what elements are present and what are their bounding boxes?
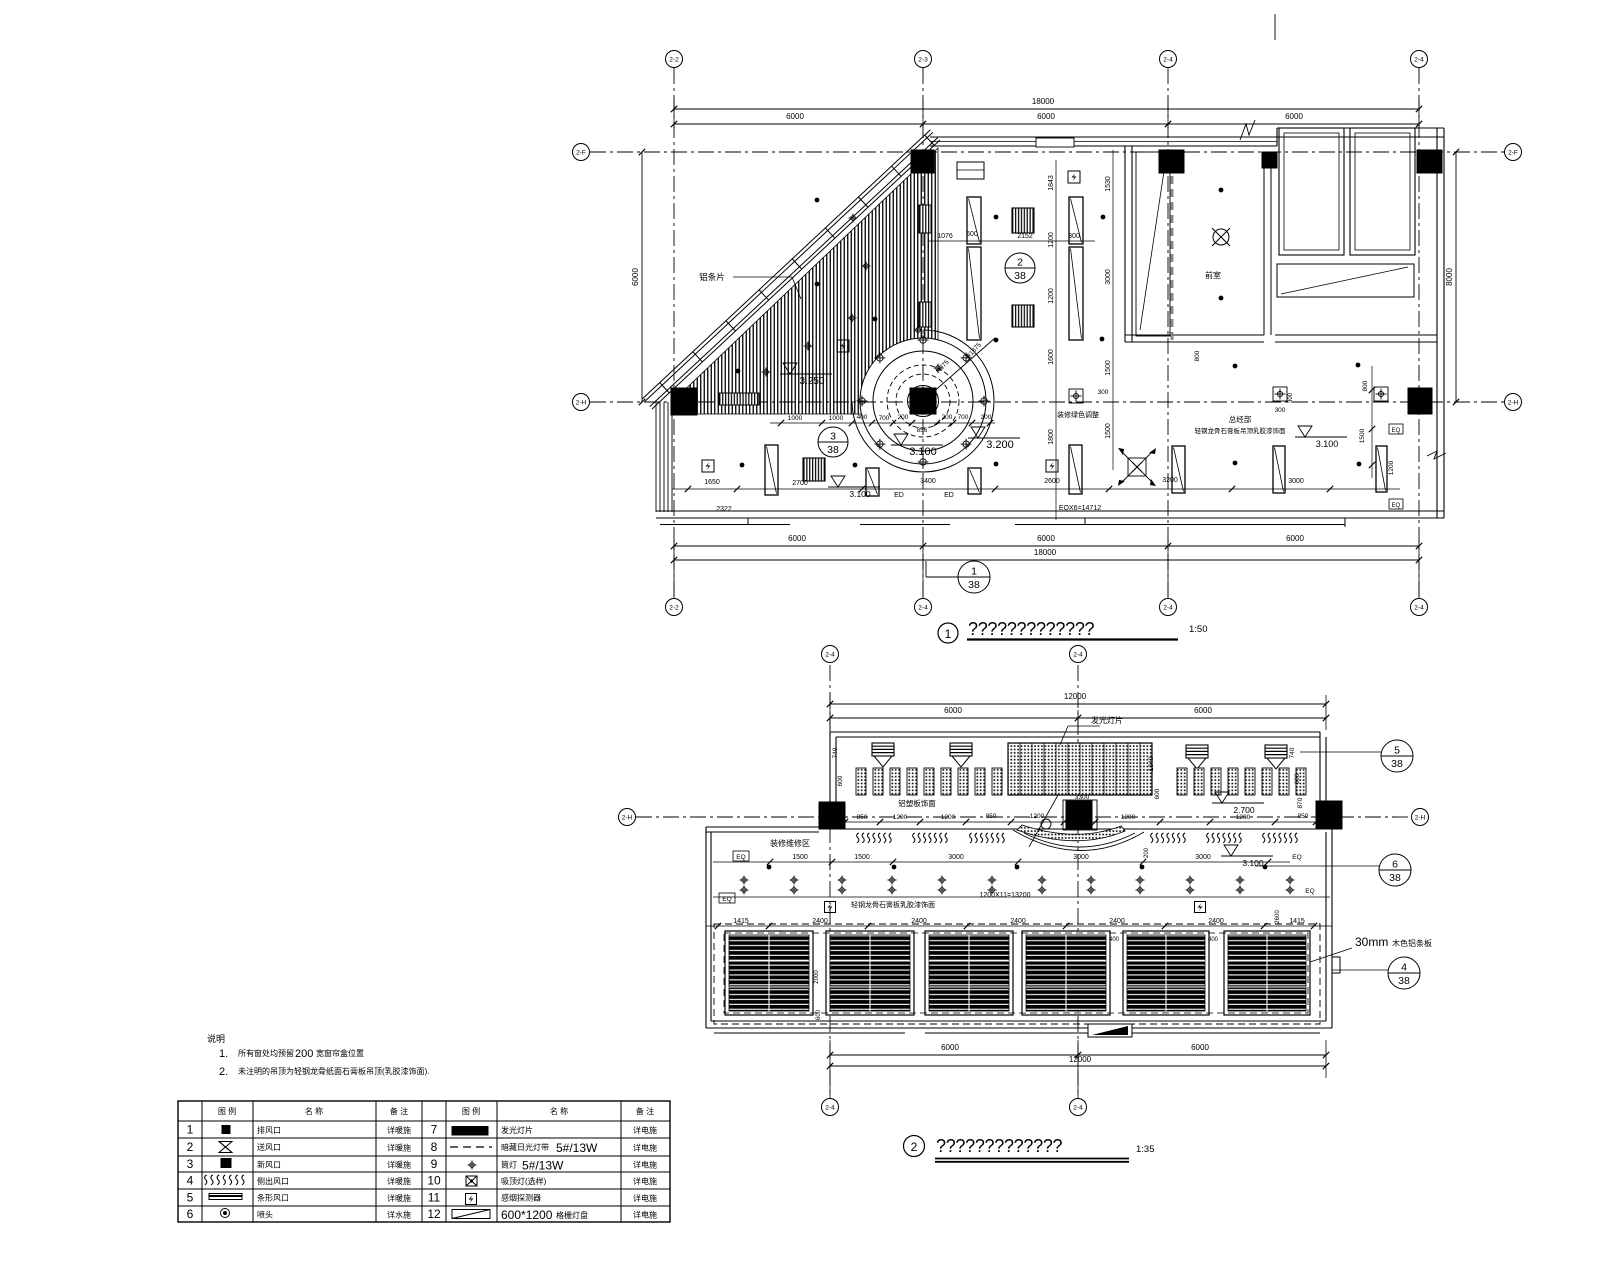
svg-text:1530: 1530 (1105, 176, 1112, 192)
svg-text:2000: 2000 (814, 970, 820, 984)
svg-text:740: 740 (832, 747, 839, 758)
svg-text:说明: 说明 (207, 1033, 225, 1044)
closet cabinet A (1279, 128, 1344, 255)
axis bubble lower top right (1070, 646, 1087, 663)
svg-text:1200: 1200 (893, 814, 908, 821)
facade bottom wall (656, 510, 1444, 512)
return air grille hatched top (1012, 208, 1034, 233)
svg-text:详暖施: 详暖施 (387, 1193, 411, 1203)
legend sym row3 fresh air (221, 1159, 231, 1168)
svg-text:1200: 1200 (941, 814, 956, 821)
svg-text:备 注: 备 注 (390, 1106, 408, 1116)
small wall notch right (1332, 957, 1340, 973)
bottom row slot diffusers (765, 445, 778, 495)
axis bubble lower bottom left (822, 1099, 839, 1116)
svg-text:3.100: 3.100 (909, 446, 937, 458)
svg-text:1200: 1200 (1048, 288, 1055, 304)
detail bubble 5/38 (1381, 740, 1413, 772)
svg-text:名 称: 名 称 (550, 1106, 568, 1116)
svg-text:10: 10 (427, 1174, 441, 1188)
svg-text:30mm: 30mm (1355, 935, 1388, 949)
svg-text:2-H: 2-H (1415, 814, 1426, 821)
detail bubble 3/38 (818, 427, 848, 457)
svg-text:38: 38 (1389, 872, 1401, 884)
svg-text:?????????????: ????????????? (968, 619, 1095, 639)
svg-text:喷头: 喷头 (257, 1210, 273, 1220)
svg-text:宽窗帘盒位置: 宽窗帘盒位置 (316, 1048, 364, 1058)
upper ceiling plan : hatched triangular zone (672, 148, 938, 414)
svg-text:2-F: 2-F (1508, 149, 1518, 156)
upper block walls (830, 731, 1320, 733)
svg-text:EQ: EQ (1305, 888, 1314, 895)
svg-text:2-4: 2-4 (1073, 651, 1083, 658)
svg-text:详暖施: 详暖施 (387, 1176, 411, 1186)
svg-text:1000: 1000 (829, 415, 844, 422)
axis bubble 2-2 bottom (666, 599, 683, 616)
svg-text:1415: 1415 (1289, 918, 1305, 925)
bottom window sill lines (714, 1032, 905, 1034)
svg-text:300: 300 (1288, 392, 1294, 403)
svg-text:200: 200 (295, 1048, 313, 1060)
legend table frame (178, 1101, 670, 1222)
svg-text:2700: 2700 (792, 480, 808, 487)
svg-text:2400: 2400 (1208, 918, 1224, 925)
column small at partition (1262, 152, 1277, 168)
detail bubble 1/38 (925, 561, 927, 577)
axis bubble 2-H right (1505, 394, 1522, 411)
left vertical dimension 6000 (641, 152, 643, 402)
right vertical dimension 8000 (1455, 152, 1457, 402)
svg-text:详电施: 详电施 (633, 1125, 657, 1135)
svg-text:1500: 1500 (1359, 428, 1366, 443)
EQ labels (733, 851, 749, 861)
tall supply grille pair left (967, 197, 981, 244)
closet cabinet B (1350, 128, 1415, 255)
svg-text:12000: 12000 (1064, 692, 1087, 701)
svg-text:轻钢龙骨石膏板吊顶乳胶漆饰面: 轻钢龙骨石膏板吊顶乳胶漆饰面 (1195, 426, 1287, 435)
w-vent symbols upper block (872, 743, 894, 756)
svg-text:18000: 18000 (1034, 548, 1057, 557)
legend sym row9 downlight (468, 1161, 477, 1170)
svg-text:700: 700 (879, 415, 890, 422)
sprinklers on ring (979, 396, 990, 407)
ceiling dots lower hall (767, 865, 772, 870)
svg-text:6000: 6000 (1286, 534, 1304, 543)
svg-text:铝塑板饰面: 铝塑板饰面 (898, 798, 936, 808)
svg-text:200: 200 (942, 414, 953, 421)
svg-text:1415: 1415 (733, 918, 749, 925)
svg-text:2-2: 2-2 (669, 604, 679, 611)
svg-text:740: 740 (1289, 747, 1296, 758)
svg-text:5: 5 (1394, 745, 1400, 757)
svg-text:详暖施: 详暖施 (387, 1143, 411, 1153)
four-arrow ceiling symbol (1120, 450, 1154, 484)
svg-text:格栅灯盘: 格栅灯盘 (556, 1210, 588, 1220)
svg-text:1:35: 1:35 (1136, 1144, 1155, 1155)
lower plan top dimension 6000s (830, 717, 1326, 719)
axis bubble lower top left (822, 646, 839, 663)
svg-text:2: 2 (911, 1140, 918, 1154)
svg-text:38: 38 (827, 444, 839, 456)
svg-text:侧出风口: 侧出风口 (257, 1176, 289, 1186)
svg-text:2-3: 2-3 (918, 56, 928, 63)
svg-text:名 称: 名 称 (305, 1106, 323, 1116)
axis bubble 2-5 top (1411, 51, 1428, 68)
grille luminaire panel 1 (725, 931, 813, 1015)
svg-text:备 注: 备 注 (636, 1106, 654, 1116)
svg-text:1200: 1200 (1388, 460, 1395, 475)
lower plan top dimension 12000 (830, 703, 1326, 705)
svg-text:1600: 1600 (1048, 349, 1055, 365)
svg-text:2-F: 2-F (576, 149, 586, 156)
level mark 3.100 centre (894, 434, 908, 445)
grid axis horizontal 2-H (590, 401, 1505, 403)
svg-text:1200: 1200 (1030, 813, 1045, 820)
svg-text:600: 600 (837, 775, 844, 786)
lower plan bottom dimension 12000 (830, 1065, 1326, 1067)
svg-text:详电施: 详电施 (633, 1160, 657, 1170)
svg-text:图 例: 图 例 (462, 1106, 480, 1116)
svg-text:800: 800 (1362, 380, 1369, 391)
outer partial arc of circular feature (852, 330, 994, 472)
svg-text:详水施: 详水施 (387, 1210, 411, 1220)
svg-text:6000: 6000 (941, 1043, 959, 1052)
smoke detector symbols (702, 460, 714, 472)
svg-text:暗藏日光灯带: 暗藏日光灯带 (501, 1142, 549, 1152)
svg-text:5: 5 (187, 1191, 194, 1205)
column lower plan left (819, 802, 845, 829)
svg-text:6000: 6000 (1191, 1043, 1209, 1052)
svg-text:3400: 3400 (920, 478, 936, 485)
svg-text:未注明的吊顶为轻钢龙骨纸面石膏板吊顶(乳胶漆饰面).: 未注明的吊顶为轻钢龙骨纸面石膏板吊顶(乳胶漆饰面). (238, 1066, 430, 1076)
vestibule dots (1219, 188, 1224, 193)
axis bubble 2-4 top (1160, 51, 1177, 68)
right wall of plan (1436, 128, 1438, 518)
svg-text:2.700: 2.700 (1233, 805, 1255, 815)
svg-text:3: 3 (830, 431, 836, 443)
squiggle diffuser groups (857, 833, 892, 843)
level mark 3.200 (971, 427, 985, 438)
svg-text:18000: 18000 (1032, 97, 1055, 106)
svg-text:木色铝条板: 木色铝条板 (1392, 938, 1432, 948)
legend sym row6 sprinkler head (221, 1209, 230, 1218)
svg-text:3.250: 3.250 (799, 376, 824, 387)
bottom dimension line 6000 segments (674, 545, 1419, 547)
svg-text:300: 300 (1275, 407, 1286, 414)
svg-text:2-2: 2-2 (669, 56, 679, 63)
svg-text:2400: 2400 (911, 918, 927, 925)
grid axis vertical 2-2 (673, 68, 675, 597)
svg-text:5#/13W: 5#/13W (556, 1141, 598, 1155)
axis bubble 2-5 bottom (1411, 599, 1428, 616)
column right wall 2-H (1408, 388, 1432, 414)
column lower plan right (1316, 801, 1342, 829)
svg-text:6000: 6000 (631, 268, 640, 286)
svg-text:铝条片: 铝条片 (699, 272, 725, 282)
svg-text:1200X11=13200: 1200X11=13200 (979, 892, 1030, 899)
svg-text:4: 4 (1401, 962, 1407, 974)
svg-text:6000: 6000 (944, 706, 962, 715)
svg-text:6000: 6000 (1037, 534, 1055, 543)
section wedge marker (1088, 1024, 1132, 1037)
svg-text:送风口: 送风口 (257, 1142, 281, 1152)
legend sym row5 linear grille (209, 1194, 242, 1200)
axis bubble lower left (619, 809, 636, 826)
svg-text:1843: 1843 (1048, 175, 1055, 191)
top dimension line 18000 (674, 108, 1419, 110)
curved reception feature (1063, 800, 1097, 830)
level 2.700 (1215, 792, 1229, 803)
detail bubble 4/38 (1388, 957, 1420, 989)
legend sym row1 exhaust (222, 1126, 230, 1134)
vestibule door leaf with swing (1136, 152, 1170, 336)
svg-text:800: 800 (1194, 350, 1201, 361)
level mark 3.100 low (831, 476, 845, 487)
svg-text:图 例: 图 例 (218, 1106, 236, 1116)
svg-text:条形风口: 条形风口 (257, 1193, 289, 1203)
svg-text:1500: 1500 (1105, 423, 1112, 439)
leader to luminous film (1029, 795, 1058, 847)
level mark 3.100 right (1298, 426, 1312, 437)
legend sym row10 ceiling lamp (466, 1176, 477, 1186)
grille luminaire panel 3 (925, 931, 1013, 1015)
level 3.100 lower (1224, 845, 1238, 856)
svg-text:新风口: 新风口 (257, 1160, 281, 1170)
axis bubble 2-2 top (666, 51, 683, 68)
grille luminaire panel 4 (1022, 931, 1110, 1015)
column top wall at 2-5 (1417, 150, 1442, 173)
svg-text:200: 200 (898, 414, 909, 421)
grid axis horizontal 2-H lower plan (636, 816, 1412, 818)
svg-text:1500: 1500 (1105, 360, 1112, 376)
svg-text:2: 2 (187, 1140, 194, 1154)
lower plan outer walls (706, 826, 819, 828)
svg-text:2-4: 2-4 (825, 651, 835, 658)
detail bubble 2/38 (1005, 253, 1035, 283)
svg-text:6000: 6000 (1037, 112, 1055, 121)
grille luminaire panel 5 (1123, 931, 1209, 1015)
svg-text:300: 300 (1068, 233, 1080, 240)
perforated diffuser row left (856, 768, 866, 795)
column grid 2-2/2-H (671, 388, 697, 415)
radius leader line R975 / R1375 (923, 338, 995, 401)
svg-text:850: 850 (1298, 813, 1309, 820)
grid axis vertical 2-4 lower plan left (829, 665, 831, 1096)
axis bubble 2-F right (1505, 144, 1522, 161)
sprinkler crosses hatch zone (862, 262, 871, 271)
svg-text:装修绿色调整: 装修绿色调整 (1057, 410, 1099, 419)
tiny striped grille bottom-left (719, 393, 759, 405)
svg-text:850: 850 (857, 814, 868, 821)
svg-text:详电施: 详电施 (633, 1176, 657, 1186)
svg-text:2152: 2152 (1017, 233, 1033, 240)
stray construction line top (1274, 14, 1276, 40)
svg-text:所有窗处均预留: 所有窗处均预留 (238, 1048, 294, 1058)
svg-text:1500: 1500 (792, 854, 808, 861)
svg-text:600*1200: 600*1200 (501, 1208, 553, 1222)
svg-text:1340: 1340 (1148, 756, 1155, 771)
svg-text:前室: 前室 (1205, 270, 1221, 280)
svg-text:详暖施: 详暖施 (387, 1160, 411, 1170)
svg-text:6000: 6000 (1194, 706, 1212, 715)
svg-text:300: 300 (1098, 389, 1109, 396)
svg-text:3: 3 (187, 1157, 194, 1171)
vestibule dashed reference line (1171, 150, 1174, 340)
column top wall at 2-4 (1159, 150, 1184, 173)
svg-text:2-4: 2-4 (825, 1104, 835, 1111)
svg-text:EQX6=14712: EQX6=14712 (1059, 505, 1101, 512)
svg-text:1:50: 1:50 (1189, 624, 1208, 635)
svg-text:装修维修区: 装修维修区 (770, 838, 810, 848)
break mark top right (1240, 120, 1255, 140)
svg-text:5#/13W: 5#/13W (522, 1159, 564, 1173)
svg-text:详电施: 详电施 (633, 1143, 657, 1153)
column top wall at 2-3 (911, 150, 934, 173)
svg-text:200: 200 (981, 414, 992, 421)
svg-text:6000: 6000 (1285, 112, 1303, 121)
svg-text:6: 6 (187, 1207, 194, 1221)
svg-text:12000: 12000 (1069, 1055, 1092, 1064)
svg-text:2-4: 2-4 (918, 604, 928, 611)
svg-text:4: 4 (187, 1174, 194, 1188)
svg-text:3.100: 3.100 (1242, 858, 1264, 868)
grille luminaire panel 2 (826, 931, 914, 1015)
circular ceiling feature rings (860, 338, 986, 464)
vestibule room walls (1124, 146, 1126, 342)
svg-text:3000: 3000 (1288, 478, 1304, 485)
top dimension line 6000 segments (674, 123, 1419, 125)
return air grille hatched mid (1012, 305, 1034, 327)
svg-text:3000: 3000 (1195, 854, 1211, 861)
door opening in top wall (1036, 138, 1074, 147)
svg-text:EQ: EQ (736, 854, 745, 861)
smoke detectors lower hall (825, 902, 836, 913)
svg-text:2: 2 (1017, 257, 1023, 269)
svg-text:详电施: 详电施 (633, 1193, 657, 1203)
svg-text:2400: 2400 (812, 918, 828, 925)
small striped grille b (919, 302, 931, 327)
luminous panel 发光灯片 (1008, 743, 1152, 795)
svg-text:400: 400 (857, 414, 868, 421)
legend sym row7 luminous film (452, 1127, 488, 1136)
svg-text:700: 700 (958, 414, 969, 421)
svg-text:600: 600 (816, 1009, 822, 1020)
svg-text:3000: 3000 (948, 854, 964, 861)
svg-text:11: 11 (428, 1191, 441, 1205)
axis bubble 2-F left (573, 144, 590, 161)
svg-text:200: 200 (1144, 847, 1150, 858)
grid axis vertical 2-4 (1167, 68, 1169, 597)
svg-text:1650: 1650 (704, 479, 720, 486)
svg-text:2.: 2. (219, 1066, 228, 1078)
axis bubble lower bottom right (1070, 1099, 1087, 1116)
svg-text:3200: 3200 (1162, 477, 1178, 484)
svg-text:3000: 3000 (1105, 269, 1112, 285)
svg-text:850: 850 (986, 813, 997, 820)
svg-text:1: 1 (945, 627, 952, 641)
svg-text:发光灯片: 发光灯片 (1091, 715, 1123, 725)
svg-text:排风口: 排风口 (257, 1125, 281, 1135)
mullion ticks on diagonal wall (660, 383, 670, 393)
svg-text:12: 12 (427, 1207, 441, 1221)
svg-text:2400: 2400 (1010, 918, 1026, 925)
svg-text:2-H: 2-H (1508, 399, 1519, 406)
svg-text:ED: ED (944, 492, 954, 499)
column lower plan centre (1066, 801, 1092, 829)
svg-text:870: 870 (1297, 797, 1304, 808)
diagonal curtain wall band (652, 140, 940, 409)
axis bubble 2-3 top (915, 51, 932, 68)
svg-text:EQ: EQ (1292, 854, 1301, 861)
svg-text:详电施: 详电施 (633, 1210, 657, 1220)
axis bubble 2-4 bottom (1160, 599, 1177, 616)
axis bubble 2-3 bottom (915, 599, 932, 616)
legend sym row8 concealed tube (450, 1146, 492, 1148)
svg-text:1200: 1200 (1121, 814, 1136, 821)
grid axis vertical 2-4 lower plan right (1077, 665, 1079, 1096)
svg-text:8000: 8000 (1445, 268, 1454, 286)
plan title 2 (904, 1136, 925, 1157)
break mark right wall (1427, 451, 1446, 459)
svg-text:2600: 2600 (1044, 478, 1060, 485)
svg-text:1200: 1200 (1236, 814, 1251, 821)
svg-text:?????????????: ????????????? (936, 1136, 1063, 1156)
svg-text:38: 38 (1391, 758, 1403, 770)
svg-text:2322: 2322 (716, 506, 732, 513)
luminaire zone dashed border (714, 924, 1320, 1024)
grid axis vertical 2-5 (1418, 68, 1420, 597)
ceiling dots middle band (740, 463, 745, 468)
svg-text:1: 1 (187, 1123, 194, 1137)
sprinkler pairs lower hall (740, 876, 749, 885)
svg-text:3.200: 3.200 (986, 439, 1014, 451)
grid axis vertical 2-3 (922, 68, 924, 597)
svg-text:筒灯: 筒灯 (501, 1160, 517, 1170)
svg-text:38: 38 (1398, 975, 1410, 987)
grid axis horizontal 2-F (590, 151, 1505, 153)
boxed EQ right upper (1389, 424, 1403, 434)
svg-text:1076: 1076 (937, 233, 953, 240)
svg-text:3000: 3000 (1073, 854, 1089, 861)
small striped grille a (919, 205, 931, 233)
svg-text:详暖施: 详暖施 (387, 1125, 411, 1135)
svg-text:2-4: 2-4 (1414, 56, 1424, 63)
svg-text:600: 600 (966, 231, 978, 238)
svg-text:8: 8 (431, 1140, 438, 1154)
shelf counter with diagonal (1277, 264, 1414, 297)
left window band of facade (655, 402, 657, 512)
svg-text:轻钢龙骨石膏板乳胶漆饰面: 轻钢龙骨石膏板乳胶漆饰面 (851, 900, 935, 909)
svg-text:2-4: 2-4 (1163, 604, 1173, 611)
axis bubble 2-H left (573, 394, 590, 411)
svg-text:600: 600 (1154, 788, 1161, 799)
vestibule ceiling lamp symbol (1212, 228, 1230, 246)
svg-text:2400: 2400 (1109, 918, 1125, 925)
svg-text:856: 856 (917, 427, 928, 434)
svg-text:38: 38 (1014, 270, 1026, 282)
svg-text:9: 9 (431, 1157, 438, 1171)
svg-text:1500: 1500 (854, 854, 870, 861)
downlight square symbols (1069, 389, 1083, 403)
legend sym row2 supply (219, 1142, 232, 1153)
legend sym row4 side outlet (205, 1175, 244, 1185)
level mark 3.250 (783, 363, 797, 374)
legend sym row11 smoke detector (466, 1194, 477, 1205)
ceiling dots upper area (994, 215, 999, 220)
svg-text:1000: 1000 (788, 415, 803, 422)
boxed EQ right lower (1389, 499, 1403, 509)
svg-text:6000: 6000 (788, 534, 806, 543)
